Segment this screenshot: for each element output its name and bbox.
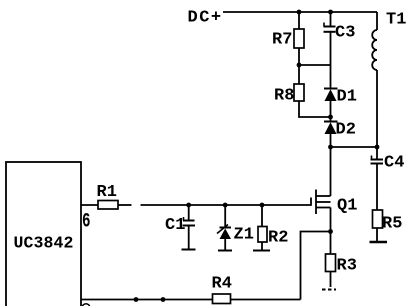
- wire bottom rail: [81, 299, 301, 301]
- wire top rail DC+: [223, 11, 377, 13]
- node junction source / R3 / sense: [328, 229, 333, 234]
- transistor Q1 (MOSFET): [311, 147, 357, 216]
- resistor R7: [272, 29, 304, 50]
- node junction gate wire / C1: [186, 203, 191, 208]
- svg-text:R1: R1: [97, 183, 117, 202]
- svg-text:Q1: Q1: [337, 197, 357, 216]
- node junction top rail / R7: [297, 10, 302, 15]
- ground dashes below R3: [322, 289, 336, 291]
- capacitor C3: [324, 12, 356, 43]
- transformer T1 winding: [372, 11, 406, 148]
- wire sense loop from source node to bottom rail: [301, 232, 331, 300]
- svg-text:C4: C4: [384, 154, 404, 173]
- wire C4 to R5: [376, 164, 378, 211]
- resistor R1: [97, 183, 119, 209]
- svg-text:R4: R4: [212, 275, 232, 294]
- svg-text:R2: R2: [268, 229, 288, 248]
- ground bar below R5: [370, 241, 388, 243]
- wire R5 bottom lead: [376, 228, 378, 242]
- svg-text:R8: R8: [274, 87, 294, 106]
- svg-text:Z1: Z1: [234, 226, 254, 245]
- capacitor C4: [371, 147, 405, 173]
- capacitor C1: [165, 205, 196, 250]
- node junction R8 wire / D1-D2: [328, 115, 333, 120]
- resistor R8: [274, 84, 304, 106]
- resistor R5: [373, 210, 403, 234]
- wire R8 top lead: [298, 65, 300, 84]
- wire R8 bottom lead: [299, 101, 331, 117]
- svg-text:R3: R3: [337, 257, 357, 276]
- node junction gate wire / R2: [260, 203, 265, 208]
- svg-text:6: 6: [82, 211, 91, 234]
- zener Z1: [217, 205, 254, 251]
- wire drain node to T1 bottom: [331, 146, 378, 148]
- node junction gate wire / Z1: [223, 203, 228, 208]
- wire R7 bottom lead: [298, 48, 300, 65]
- wire R3 bottom lead: [330, 272, 332, 288]
- wire R1 to gate (with gap): [118, 204, 132, 206]
- node junction bottom rail 2: [161, 297, 166, 302]
- resistor R2: [253, 205, 288, 251]
- wire Q1 source down: [330, 208, 332, 232]
- wire pin6 to R1: [81, 204, 98, 206]
- node junction T1 / C4: [375, 145, 380, 150]
- svg-text:T1: T1: [386, 11, 406, 30]
- resistor R3: [326, 232, 357, 276]
- node junction D2 / T1 wire: [328, 145, 333, 150]
- node junction R7/R8: [297, 63, 302, 68]
- pin circle bottom left: [82, 304, 90, 306]
- svg-text:D1: D1: [337, 88, 357, 107]
- wire D2 to drain node: [330, 134, 332, 147]
- svg-text:D2: D2: [336, 121, 356, 140]
- diode D1: [324, 88, 357, 107]
- node junction top rail / C3: [328, 10, 333, 15]
- wire C3 to D1: [330, 32, 332, 89]
- svg-text:C1: C1: [165, 216, 185, 235]
- resistor R4: [212, 275, 232, 304]
- svg-text:R5: R5: [382, 215, 402, 234]
- node junction bottom rail 1: [134, 297, 139, 302]
- wire R7 top lead: [298, 12, 300, 29]
- svg-text:C3: C3: [335, 24, 355, 43]
- svg-text:UC3842: UC3842: [14, 234, 74, 253]
- svg-text:DC+: DC+: [188, 9, 223, 28]
- op-amp U1 UC3842 box: [6, 162, 81, 306]
- diode D2: [324, 121, 356, 140]
- wire D1 to junction: [330, 101, 332, 122]
- svg-text:R7: R7: [272, 31, 292, 50]
- wire R7R8 junction to C3 branch: [299, 64, 331, 66]
